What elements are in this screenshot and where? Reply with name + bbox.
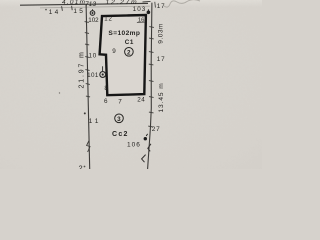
svg-text:C1: C1 [125,39,134,46]
svg-text:17: 17 [157,56,166,63]
svg-text:21.97 m: 21.97 m [79,50,86,88]
svg-text:7: 7 [118,98,122,105]
svg-text:13.45 m: 13.45 m [158,82,165,112]
svg-text:2: 2 [127,49,131,56]
svg-text:S=102mp: S=102mp [108,30,140,37]
svg-text:15: 15 [73,8,85,15]
svg-text:11: 11 [89,118,102,125]
svg-text:10: 10 [89,53,98,60]
svg-text:2: 2 [79,164,83,170]
svg-text:9.03m: 9.03m [157,23,164,44]
svg-text:4.01m: 4.01m [62,0,86,6]
svg-text:106: 106 [127,141,141,148]
svg-text:8: 8 [104,85,108,92]
svg-text:9: 9 [112,48,116,55]
svg-text:12: 12 [104,15,112,22]
svg-text:3: 3 [117,116,121,123]
svg-text:102: 102 [88,17,99,24]
svg-text:103: 103 [133,6,147,13]
svg-text:Cc2: Cc2 [112,131,129,138]
svg-text:713: 713 [85,1,96,8]
svg-text:24: 24 [137,96,145,103]
svg-text:6: 6 [104,98,108,105]
svg-text:101: 101 [87,72,99,79]
svg-text:27: 27 [152,126,161,133]
svg-text:14: 14 [49,9,61,16]
